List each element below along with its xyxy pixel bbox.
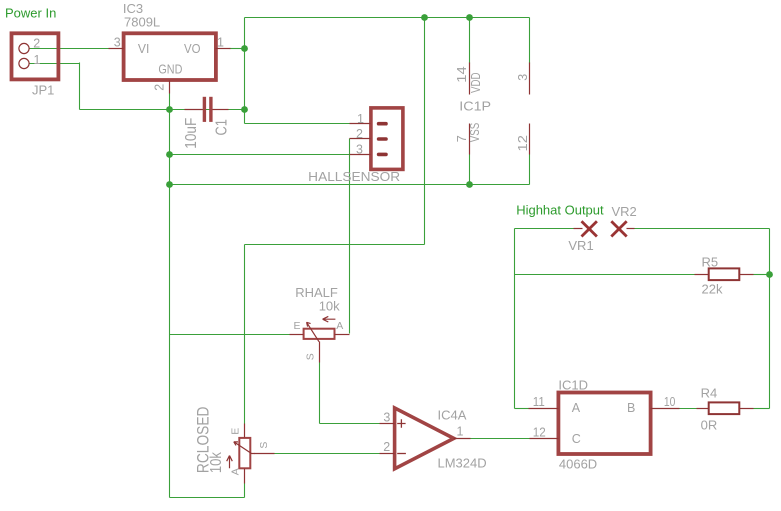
R4 pin right	[740, 408, 754, 410]
wire to HALLSENSOR pin1	[245, 123, 350, 125]
wire RHALF S down	[319, 363, 321, 424]
IC4A minus sign	[397, 453, 406, 455]
capacitor C1 pin right	[213, 109, 229, 111]
svg-text:3: 3	[356, 143, 363, 157]
wire IC1P vdd branch	[469, 18, 471, 64]
junction pin3 row	[166, 151, 173, 158]
svg-text:HALLSENSOR: HALLSENSOR	[308, 169, 400, 184]
svg-text:VR2: VR2	[612, 204, 637, 219]
svg-text:3: 3	[383, 410, 390, 424]
wire IC3 VO to node	[230, 48, 245, 50]
wire 9V vertical	[244, 18, 246, 124]
HALLSENSOR pad 2	[377, 137, 388, 141]
RHALF S pin stub	[319, 342, 321, 363]
wire HALLSENSOR pin3 row	[170, 154, 350, 156]
svg-text:VI: VI	[138, 41, 150, 56]
wire R5 row	[515, 274, 696, 276]
RHALF pin A stub	[335, 334, 350, 336]
wire to RCLOSED E vertical	[244, 245, 246, 424]
svg-text:10: 10	[664, 395, 676, 409]
svg-text:C: C	[572, 432, 581, 446]
IC3 pin GND stub	[169, 81, 171, 94]
wire RHALF E row	[170, 334, 290, 336]
wire mid horizontal	[245, 244, 425, 246]
junction R5 right	[766, 271, 773, 278]
svg-text:R5: R5	[702, 255, 719, 270]
junction top bus b	[466, 14, 473, 21]
wire opamp out to IC1D pin12	[470, 438, 531, 440]
junction vss row right	[466, 181, 473, 188]
svg-text:IC1D: IC1D	[558, 377, 588, 392]
wire IC1D pin11 horizontal	[515, 408, 529, 410]
svg-text:22k: 22k	[702, 282, 723, 297]
wire GND vertical bus	[169, 94, 171, 498]
resistor R4 body	[709, 402, 740, 414]
svg-text:GND: GND	[158, 61, 182, 76]
connector JP1	[12, 33, 59, 79]
IC3 pin VI stub	[109, 48, 124, 50]
wire bottom GND horizontal	[170, 497, 245, 499]
svg-text:3: 3	[114, 36, 121, 50]
wire IC1D pin11 vertical	[514, 229, 516, 409]
wire to GND node	[80, 109, 170, 111]
svg-text:10k: 10k	[208, 451, 225, 473]
wire IC1P vss branch	[469, 155, 471, 185]
RHALF wiper diagonal	[307, 322, 319, 341]
svg-text:2: 2	[152, 84, 166, 91]
svg-text:E: E	[229, 428, 241, 435]
svg-text:2: 2	[356, 127, 363, 141]
svg-text:JP1: JP1	[32, 83, 54, 98]
junction C1 right	[241, 106, 248, 113]
svg-text:VSS: VSS	[468, 123, 482, 143]
RCLOSED pin A stub	[244, 469, 246, 484]
svg-text:2: 2	[383, 440, 390, 454]
svg-text:7809L: 7809L	[124, 15, 160, 30]
capacitor C1 plate right	[209, 97, 212, 122]
wire highhat output row right	[635, 228, 770, 230]
svg-text:A: A	[572, 401, 581, 415]
IC3 pin VO stub	[216, 48, 231, 50]
wire top bus	[245, 17, 530, 19]
svg-text:Power In: Power In	[5, 6, 56, 21]
svg-text:4066D: 4066D	[559, 457, 597, 472]
R5 pin left	[695, 274, 709, 276]
svg-text:Highhat Output: Highhat Output	[516, 203, 604, 218]
svg-text:B: B	[627, 401, 635, 415]
svg-text:14: 14	[455, 66, 469, 82]
HALLSENSOR pad 1	[377, 122, 388, 126]
svg-text:S: S	[258, 442, 270, 449]
wire JP1 pin2 to IC3 VI	[30, 48, 110, 50]
potentiometer RHALF body	[304, 329, 335, 339]
cut mark VR1	[582, 221, 597, 236]
svg-text:11: 11	[533, 395, 545, 409]
wire HALLSENSOR pin2 vertical	[349, 139, 351, 334]
capacitor C1 pin left	[185, 109, 203, 111]
svg-text:S: S	[304, 353, 316, 360]
IC1D pin 10 stub	[651, 408, 680, 410]
wire highhat output row left	[515, 228, 575, 230]
cut mark VR2	[611, 221, 626, 236]
junction GND node	[166, 106, 173, 113]
svg-text:1: 1	[457, 425, 464, 439]
wire R4 left	[680, 408, 698, 410]
wire RCLOSED A to bottom	[244, 484, 246, 498]
IC4A pin 1 stub	[454, 438, 471, 440]
svg-text:0R: 0R	[701, 418, 718, 433]
svg-text:10uF: 10uF	[183, 118, 200, 149]
RHALF pin E stub	[290, 334, 304, 336]
svg-text:12: 12	[516, 135, 530, 151]
wire R4 right	[754, 408, 770, 410]
wire C1 row	[170, 109, 245, 111]
svg-text:A: A	[336, 320, 343, 332]
connector HALLSENSOR body	[371, 108, 403, 169]
R5 pin right	[740, 274, 754, 276]
HALLSENSOR pin 3 stub	[350, 154, 371, 156]
svg-text:1: 1	[217, 36, 224, 50]
RCLOSED adjust arrow	[227, 456, 233, 469]
JP1 pin 1 circle	[19, 58, 29, 68]
wire VSS long row	[170, 184, 530, 186]
svg-text:LM324D: LM324D	[438, 456, 487, 471]
junction vss row left	[166, 181, 173, 188]
svg-text:2: 2	[33, 36, 40, 50]
RCLOSED S pin stub	[255, 453, 275, 455]
IC1D pin 11 stub	[529, 408, 559, 410]
svg-text:IC4A: IC4A	[438, 408, 467, 423]
voltage regulator IC3 body	[124, 33, 216, 80]
svg-text:R4: R4	[701, 386, 718, 401]
svg-text:10k: 10k	[319, 299, 340, 314]
RHALF adjust arrow	[323, 316, 336, 322]
wire JP1 pin1 down	[79, 63, 81, 110]
svg-text:VO: VO	[184, 41, 201, 56]
junction top bus a	[421, 14, 428, 21]
IC1P pin 12 stub	[529, 124, 531, 155]
svg-text:1: 1	[357, 112, 364, 126]
svg-text:VDD: VDD	[469, 73, 483, 94]
HALLSENSOR pin 1 stub	[350, 123, 371, 125]
IC4A pin 2 stub	[380, 453, 395, 455]
RCLOSED wiper diagonal	[234, 442, 255, 454]
svg-text:C1: C1	[214, 119, 231, 135]
potentiometer RCLOSED body	[239, 438, 250, 468]
svg-text:12: 12	[533, 426, 546, 440]
wire RCLOSED S to opamp pin2	[275, 453, 380, 455]
wire mid vertical from top bus	[424, 18, 426, 245]
svg-text:A: A	[229, 468, 241, 475]
RHALF wiper arrowhead	[307, 322, 311, 326]
resistor R5 body	[709, 268, 740, 280]
HALLSENSOR pad 3	[377, 153, 388, 157]
wire IC1P pin12 branch	[529, 155, 531, 185]
junction VO node	[241, 45, 248, 52]
JP1 pin 2 circle	[19, 43, 29, 53]
VR2 right pin stub	[627, 228, 635, 230]
wire R5 right	[754, 274, 770, 276]
IC1P pin 3 stub	[529, 63, 531, 95]
HALLSENSOR pin 2 stub	[350, 138, 371, 140]
svg-text:E: E	[294, 320, 301, 332]
IC4A plus sign	[397, 419, 405, 427]
svg-text:7: 7	[455, 135, 469, 142]
RCLOSED wiper arrowhead	[234, 442, 238, 446]
svg-text:VR1: VR1	[568, 238, 593, 253]
R4 pin left	[697, 408, 709, 410]
wire right vertical	[769, 229, 771, 409]
wire JP1 pin1 right	[30, 63, 80, 65]
VR1 left pin stub	[574, 228, 583, 230]
IC1P pin 14 stub	[469, 63, 471, 95]
RCLOSED pin E stub	[244, 424, 246, 438]
analog switch IC1D body	[558, 393, 650, 455]
IC4A pin 3 stub	[380, 423, 395, 425]
op-amp IC4A triangle	[395, 408, 454, 469]
capacitor C1 plate left	[203, 97, 206, 122]
svg-text:3: 3	[516, 74, 530, 81]
wire IC1P pin3 branch	[529, 18, 531, 64]
IC1P pin 7 stub	[469, 124, 471, 155]
wire RHALF S to opamp pin3	[320, 423, 380, 425]
svg-text:1: 1	[34, 53, 41, 67]
svg-text:IC1P: IC1P	[459, 98, 491, 113]
IC1D pin 12 stub	[530, 438, 559, 440]
